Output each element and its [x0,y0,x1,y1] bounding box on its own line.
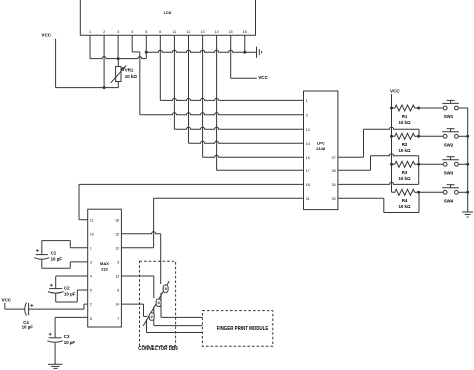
svg-text:232: 232 [101,266,108,271]
svg-text:10 kΩ: 10 kΩ [125,74,138,79]
svg-text:R4: R4 [402,198,408,203]
svg-text:CONNECTOR DB9: CONNECTOR DB9 [138,346,178,352]
svg-text:1: 1 [306,99,308,103]
svg-text:10 µF: 10 µF [64,340,76,345]
svg-text:12: 12 [115,246,119,250]
svg-text:R1: R1 [402,114,408,119]
svg-text:SW1: SW1 [444,114,454,119]
svg-text:2: 2 [90,303,92,307]
svg-text:10 kΩ: 10 kΩ [398,148,411,153]
svg-text:C1: C1 [51,251,57,256]
svg-text:1: 1 [90,246,92,250]
svg-text:MAX: MAX [100,261,109,266]
svg-text:7: 7 [117,317,119,321]
svg-text:5: 5 [145,30,147,34]
svg-text:VCC: VCC [41,32,51,37]
svg-text:10 kΩ: 10 kΩ [398,120,411,125]
svg-text:28: 28 [332,169,336,173]
svg-text:27: 27 [332,156,336,160]
svg-text:1: 1 [89,30,91,34]
svg-text:6: 6 [90,317,92,321]
svg-text:SW2: SW2 [444,143,454,148]
svg-text:10 kΩ: 10 kΩ [398,176,411,181]
svg-text:3: 3 [117,30,119,34]
svg-text:LPC: LPC [317,141,325,146]
svg-text:10: 10 [90,232,94,236]
svg-text:14: 14 [115,303,119,307]
svg-text:14: 14 [215,30,219,34]
svg-text:10 µF: 10 µF [22,325,34,330]
svg-text:11: 11 [173,30,177,34]
svg-text:4: 4 [131,30,133,34]
svg-text:VR1: VR1 [125,68,134,73]
svg-text:13: 13 [201,30,205,34]
svg-text:16: 16 [243,30,247,34]
svg-text:6: 6 [159,30,161,34]
svg-text:13: 13 [306,128,310,132]
svg-text:11: 11 [90,218,94,222]
svg-text:3: 3 [90,261,92,265]
svg-text:16: 16 [115,218,119,222]
svg-text:14: 14 [306,142,310,146]
svg-text:15: 15 [229,30,233,34]
svg-text:R2: R2 [402,142,408,147]
svg-text:4: 4 [90,275,92,279]
svg-text:10 µF: 10 µF [51,257,63,262]
svg-text:VCC: VCC [258,75,268,80]
svg-text:17: 17 [306,169,310,173]
svg-text:R3: R3 [402,170,408,175]
svg-text:34: 34 [332,183,336,187]
svg-text:VCC: VCC [390,89,400,94]
svg-text:5: 5 [90,289,92,293]
svg-text:C2: C2 [64,286,70,291]
svg-text:2: 2 [103,30,105,34]
svg-text:21: 21 [306,197,310,201]
svg-text:SW4: SW4 [444,199,454,204]
svg-text:18: 18 [306,183,310,187]
svg-text:10 kΩ: 10 kΩ [398,204,411,209]
svg-text:LCD: LCD [164,11,172,15]
svg-text:SW3: SW3 [444,171,454,176]
svg-text:2148: 2148 [316,146,326,151]
svg-text:C3: C3 [64,334,70,339]
svg-text:15: 15 [306,156,310,160]
svg-text:15: 15 [115,232,119,236]
svg-text:33: 33 [332,197,336,201]
svg-text:8: 8 [117,289,119,293]
svg-text:9: 9 [117,261,119,265]
svg-text:10 µF: 10 µF [64,292,76,297]
svg-text:FINGER PRINT MODULE: FINGER PRINT MODULE [217,326,269,332]
svg-text:12: 12 [187,30,191,34]
svg-text:2: 2 [306,113,308,117]
svg-text:13: 13 [115,275,119,279]
svg-text:VCC: VCC [1,298,11,303]
